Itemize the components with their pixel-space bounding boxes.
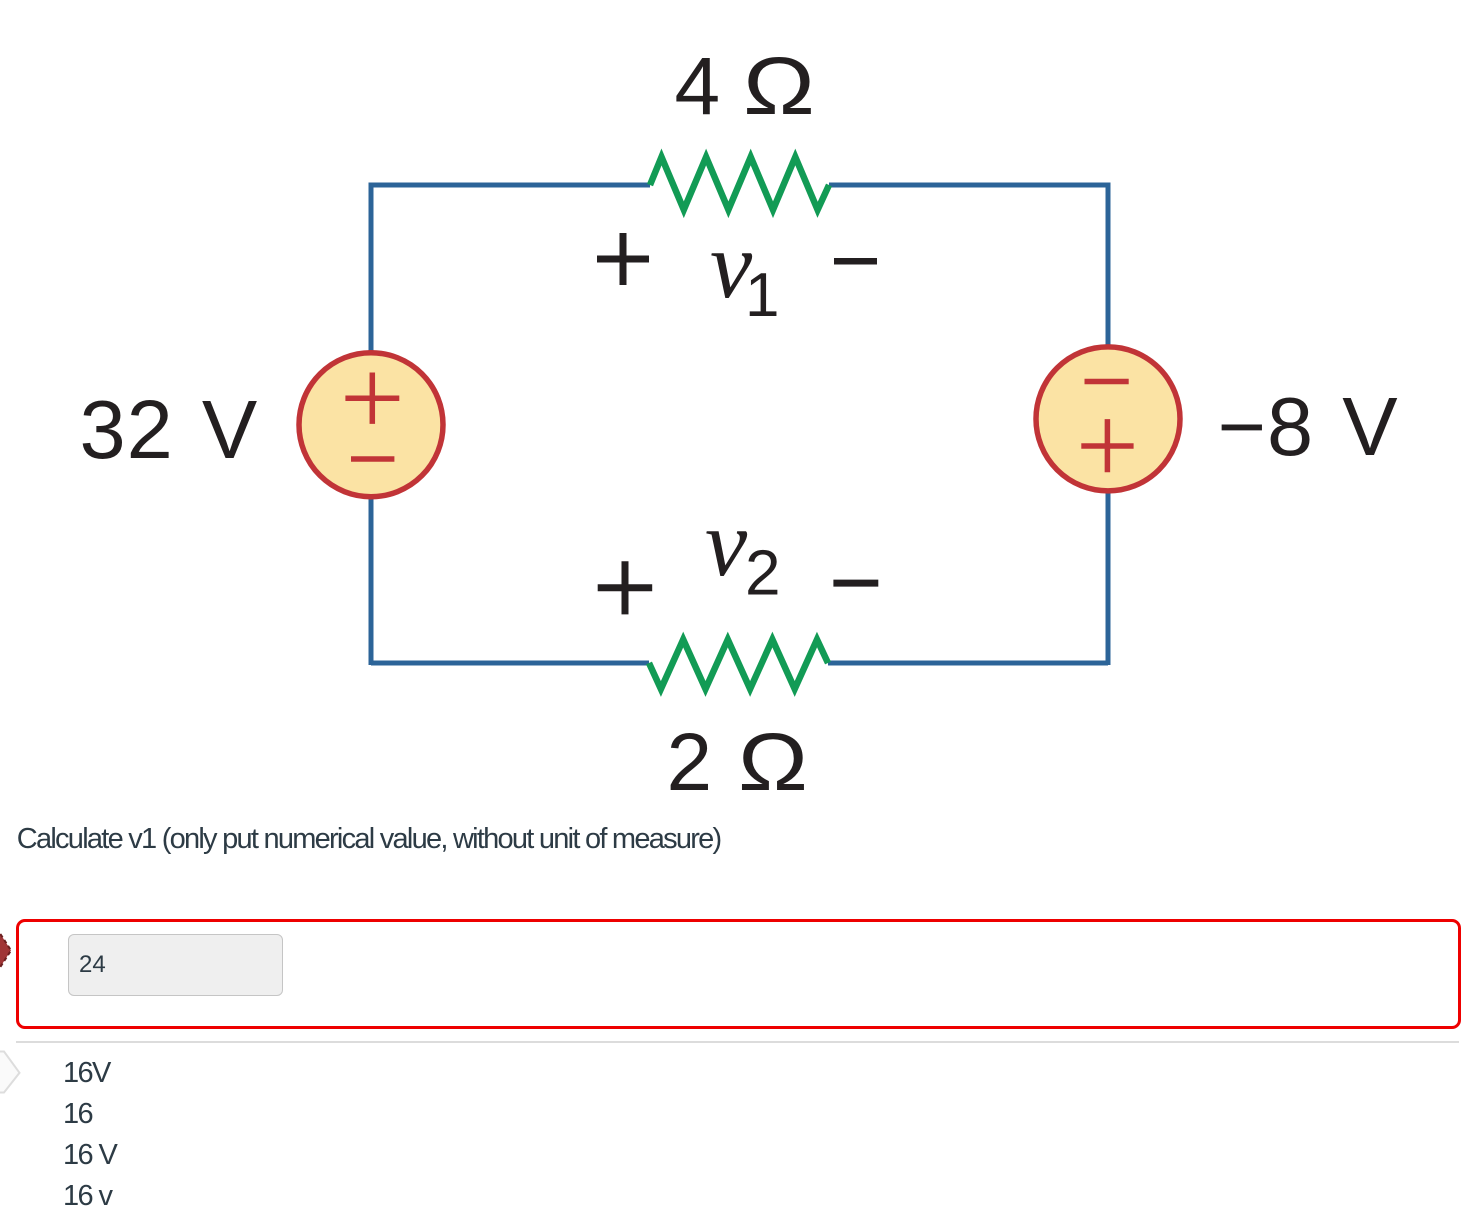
answer option 16 v — [63, 1182, 111, 1211]
label v1 minus polarity — [834, 258, 877, 265]
wire bottom-left segment — [371, 661, 649, 666]
voltage source V2 -8V circle — [1036, 347, 1180, 491]
svg-text:2: 2 — [667, 717, 713, 808]
incorrect answer chevron — [0, 1052, 20, 1093]
label v2 plus polarity — [598, 561, 653, 614]
svg-text:1: 1 — [745, 261, 779, 330]
question text — [17, 825, 721, 854]
voltage source V1 minus sign — [351, 456, 394, 462]
divider line — [16, 1041, 1459, 1043]
wire top-right segment — [829, 183, 1108, 188]
label v2 minus polarity — [833, 580, 878, 587]
label v1 plus polarity — [597, 233, 649, 285]
wire left vertical upper — [369, 183, 374, 353]
voltage source V2 minus sign — [1085, 379, 1129, 385]
wire bottom-right segment — [828, 661, 1108, 666]
svg-text:−8 V: −8 V — [1218, 380, 1399, 473]
wire right vertical lower — [1106, 491, 1111, 665]
voltage source V1 plus sign — [345, 373, 399, 424]
wire right vertical upper — [1106, 183, 1111, 347]
input value 24 — [79, 953, 106, 977]
voltage source V1 32V circle — [299, 353, 443, 497]
svg-text:2: 2 — [745, 537, 781, 609]
svg-text:Ω: Ω — [743, 41, 815, 132]
wire left vertical lower — [369, 497, 374, 665]
answer option 16 V — [63, 1141, 116, 1170]
answer option 16V — [63, 1059, 110, 1088]
answer option 16 — [63, 1100, 92, 1129]
svg-text:Ω: Ω — [738, 717, 808, 808]
resistor R1 4 ohm zigzag — [650, 157, 829, 210]
voltage source V2 plus sign — [1081, 419, 1133, 472]
answer red border box — [16, 919, 1461, 1029]
svg-text:4: 4 — [675, 41, 721, 132]
answer marker diamond — [0, 933, 11, 967]
wire top-left segment — [371, 183, 650, 188]
numeric input field — [68, 934, 284, 996]
resistor R2 2 ohm zigzag — [649, 640, 828, 690]
svg-text:32 V: 32 V — [80, 383, 259, 476]
svg-text:v: v — [705, 490, 748, 596]
